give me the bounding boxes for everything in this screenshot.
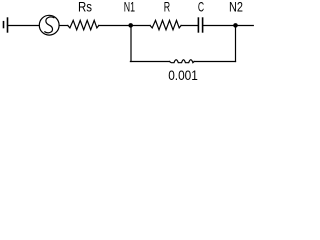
svg-text:0.001: 0.001	[168, 68, 198, 83]
svg-text:N1: N1	[124, 0, 135, 14]
svg-text:C: C	[198, 0, 204, 14]
svg-text:N2: N2	[229, 0, 243, 14]
svg-text:R: R	[164, 0, 170, 14]
svg-text:Rs: Rs	[78, 0, 92, 14]
